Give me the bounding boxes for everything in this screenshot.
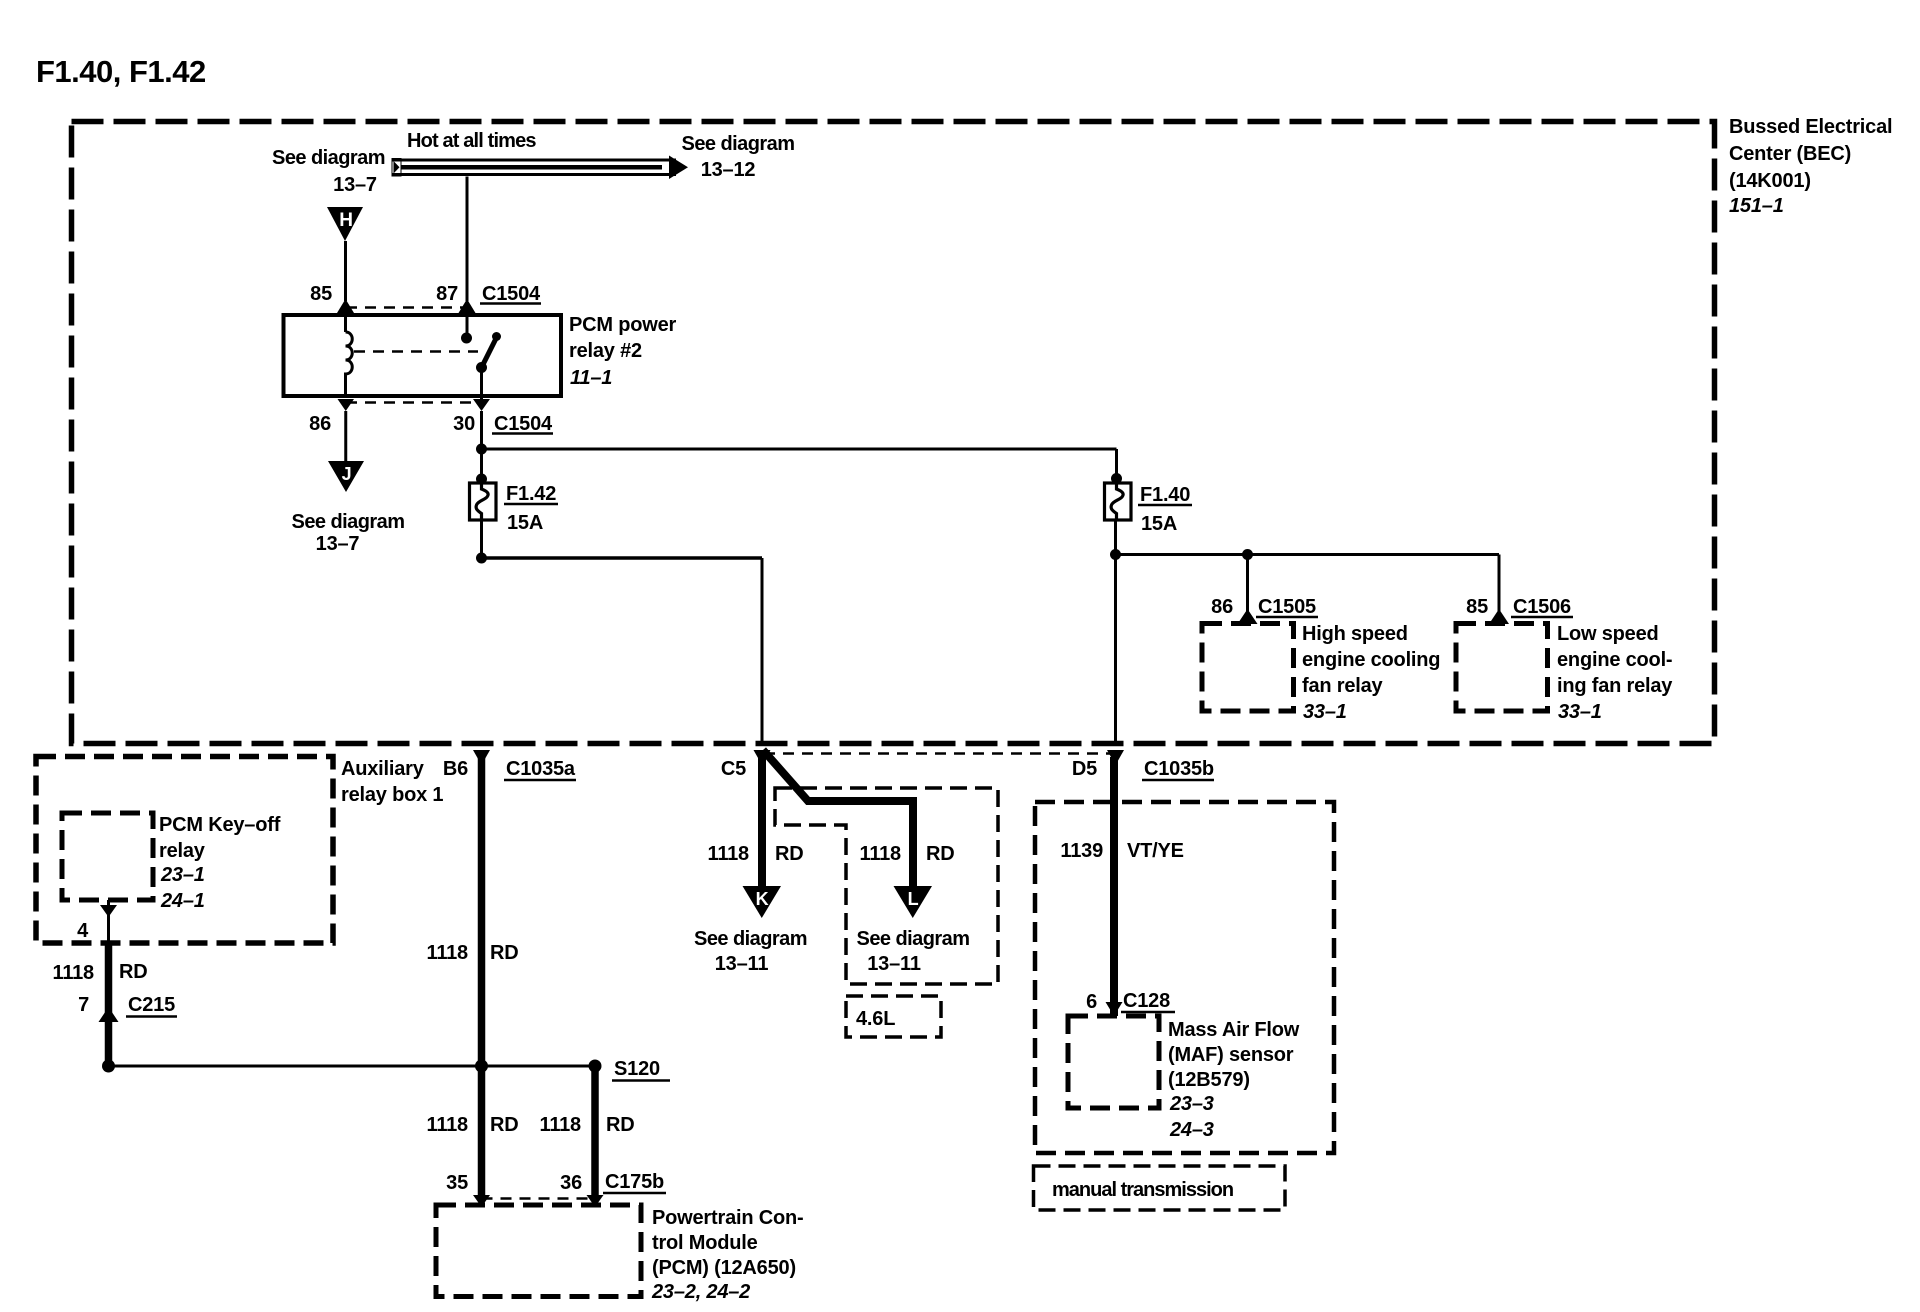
connector C215 label xyxy=(126,994,177,1017)
wire B6 thick (1118 RD) xyxy=(478,757,486,1198)
power bus: Hot at all times xyxy=(392,130,688,179)
svg-text:87: 87 xyxy=(436,283,458,305)
pin 4 label xyxy=(77,920,89,942)
Bussed Electrical Center (BEC) dashed box xyxy=(72,122,1715,744)
pin 86 arrow xyxy=(338,399,355,411)
see diagram 13-11 (L) xyxy=(857,928,970,975)
pin 7 label xyxy=(78,994,89,1016)
svg-text:See diagram: See diagram xyxy=(272,147,385,169)
connector C1035a label xyxy=(504,758,576,780)
see diagram 13-12 xyxy=(682,133,795,181)
low speed engine cooling fan relay box xyxy=(1456,624,1548,712)
relay pin 87 terminal xyxy=(461,333,472,344)
svg-text:86: 86 xyxy=(1211,596,1233,618)
svg-text:30: 30 xyxy=(453,413,475,435)
svg-text:RD: RD xyxy=(119,961,148,983)
splice S120 horizontal wire xyxy=(102,1060,602,1073)
svg-text:23–2, 24–2: 23–2, 24–2 xyxy=(651,1281,750,1303)
svg-text:See diagram: See diagram xyxy=(694,928,807,950)
svg-text:Bussed Electrical: Bussed Electrical xyxy=(1729,116,1892,138)
svg-text:RD: RD xyxy=(490,1114,519,1136)
svg-text:(12B579): (12B579) xyxy=(1168,1069,1250,1091)
BEC (14K001) label xyxy=(1729,116,1892,217)
svg-text:D5: D5 xyxy=(1072,758,1097,780)
connector C1505 label xyxy=(1256,596,1318,618)
wire label 1139 VT/YE xyxy=(1060,840,1183,862)
svg-text:C128: C128 xyxy=(1123,990,1170,1012)
svg-text:Center (BEC): Center (BEC) xyxy=(1729,143,1851,165)
svg-text:Auxiliary: Auxiliary xyxy=(341,758,425,780)
pin D5 label xyxy=(1072,758,1097,780)
node B6 (C1035a) arrow xyxy=(473,750,490,765)
connector C1035b label xyxy=(1142,758,1214,780)
svg-text:B6: B6 xyxy=(443,758,468,780)
svg-text:Hot at all times: Hot at all times xyxy=(407,130,536,152)
svg-text:151–1: 151–1 xyxy=(1729,195,1784,217)
node H arrow xyxy=(327,207,363,241)
wire below F1.42 xyxy=(476,520,487,564)
svg-text:7: 7 xyxy=(78,994,89,1016)
node J arrow xyxy=(328,461,364,492)
svg-text:C175b: C175b xyxy=(605,1171,664,1193)
Powertrain Control Module (PCM) box xyxy=(436,1205,641,1297)
4.6L box xyxy=(846,996,941,1037)
pin B6 label xyxy=(443,758,468,780)
wire to C5 xyxy=(482,558,763,744)
connector C1035b dashed line C5 to D5 xyxy=(764,752,1112,755)
svg-text:24–1: 24–1 xyxy=(160,890,205,912)
node L arrow xyxy=(894,886,933,918)
svg-text:24–3: 24–3 xyxy=(1169,1119,1214,1141)
pin 4 wire and arrow xyxy=(100,900,117,944)
svg-text:VT/YE: VT/YE xyxy=(1127,840,1184,862)
svg-text:36: 36 xyxy=(560,1172,582,1194)
fuse F1.40 label xyxy=(1138,484,1192,535)
svg-text:RD: RD xyxy=(606,1114,635,1136)
svg-text:F1.40, F1.42: F1.40, F1.42 xyxy=(36,54,206,89)
connector C1504 top dashed line xyxy=(346,306,470,309)
pin 87 label xyxy=(436,283,458,305)
svg-text:S120: S120 xyxy=(614,1058,660,1080)
pin 35 arrow xyxy=(473,1195,490,1207)
svg-text:1118: 1118 xyxy=(540,1114,582,1136)
svg-text:C1504: C1504 xyxy=(482,283,541,305)
svg-text:RD: RD xyxy=(490,942,519,964)
pin 30 label xyxy=(453,413,475,435)
svg-text:13–7: 13–7 xyxy=(316,533,360,555)
svg-text:H: H xyxy=(339,210,353,231)
pin 85 label xyxy=(310,283,332,305)
wire pin 30 down xyxy=(476,411,487,484)
svg-text:RD: RD xyxy=(926,843,955,865)
fuse F1.40 xyxy=(1105,449,1132,520)
svg-text:C1035a: C1035a xyxy=(506,758,576,780)
wire pin 30 to fuse F1.40 (horizontal) xyxy=(482,448,1117,451)
wire C5 to K xyxy=(758,751,766,887)
svg-text:85: 85 xyxy=(310,283,332,305)
see diagram 13-7 (bottom) xyxy=(292,511,405,555)
svg-text:15A: 15A xyxy=(1141,513,1177,535)
high speed engine cooling fan relay box xyxy=(1202,624,1294,712)
svg-text:(PCM) (12A650): (PCM) (12A650) xyxy=(652,1257,796,1279)
connector C1504 bottom label xyxy=(492,413,553,435)
svg-text:23–3: 23–3 xyxy=(1169,1093,1214,1115)
svg-text:Mass Air Flow: Mass Air Flow xyxy=(1168,1019,1300,1041)
svg-text:C215: C215 xyxy=(128,994,175,1016)
wire label 1118 RD (B6 upper) xyxy=(427,942,519,964)
wire label 1118 RD (pin 35) xyxy=(427,1114,519,1136)
svg-text:C1504: C1504 xyxy=(494,413,553,435)
connector C1504 bottom dashed line xyxy=(346,401,482,404)
svg-text:K: K xyxy=(756,889,769,909)
svg-text:engine cool-: engine cool- xyxy=(1557,649,1672,671)
connector C175b dashed line xyxy=(482,1197,596,1200)
page title F1.40, F1.42 xyxy=(36,54,206,89)
relay label xyxy=(569,314,677,389)
4.6L region dashed outline xyxy=(775,788,998,984)
svg-text:85: 85 xyxy=(1466,596,1488,618)
svg-text:35: 35 xyxy=(446,1172,468,1194)
svg-text:1118: 1118 xyxy=(427,1114,469,1136)
wire to C1506 xyxy=(1489,555,1509,625)
svg-text:13–11: 13–11 xyxy=(867,953,921,975)
svg-text:See diagram: See diagram xyxy=(682,133,795,155)
svg-text:1118: 1118 xyxy=(53,962,95,984)
svg-text:PCM Key–off: PCM Key–off xyxy=(159,814,281,836)
wire label 1118 RD (pin 36) xyxy=(540,1114,635,1136)
svg-text:ing fan relay: ing fan relay xyxy=(1557,675,1673,697)
svg-text:C1506: C1506 xyxy=(1513,596,1571,618)
pin C5 label xyxy=(721,758,746,780)
pin 36 arrow xyxy=(587,1195,604,1207)
pin 86 label xyxy=(309,413,331,435)
svg-text:RD: RD xyxy=(775,843,804,865)
svg-text:1118: 1118 xyxy=(708,843,750,865)
wire S120 to PCM pin 36 xyxy=(591,1066,599,1198)
svg-text:Powertrain Con-: Powertrain Con- xyxy=(652,1207,803,1229)
wire label 1118 RD (L) xyxy=(860,843,955,865)
connector C128 label xyxy=(1121,990,1175,1012)
svg-text:relay: relay xyxy=(159,840,206,862)
wire to fan relays (horizontal) xyxy=(1116,549,1500,560)
svg-text:33–1: 33–1 xyxy=(1303,701,1347,723)
pin 86 label (C1505) xyxy=(1211,596,1233,618)
pin 85 label (C1506) xyxy=(1466,596,1488,618)
Mass Air Flow (MAF) sensor box xyxy=(1068,1016,1159,1108)
svg-text:C5: C5 xyxy=(721,758,746,780)
Auxiliary relay box 1 dashed box xyxy=(36,757,333,944)
svg-text:86: 86 xyxy=(309,413,331,435)
svg-text:See diagram: See diagram xyxy=(857,928,970,950)
PCM Key-off relay label xyxy=(159,814,281,912)
connector C1504 top label xyxy=(480,283,541,305)
node K arrow xyxy=(743,886,782,918)
svg-text:Low speed: Low speed xyxy=(1557,623,1659,645)
wire below F1.40 to D5 xyxy=(1110,520,1121,744)
pin 30 arrow xyxy=(473,399,490,411)
svg-text:1118: 1118 xyxy=(427,942,469,964)
svg-text:engine cooling: engine cooling xyxy=(1302,649,1440,671)
MAF harness outer dashed box xyxy=(1035,802,1334,1153)
fuse F1.42 label xyxy=(504,483,558,534)
low speed fan relay text xyxy=(1557,623,1673,723)
svg-text:11–1: 11–1 xyxy=(570,367,612,389)
svg-text:6: 6 xyxy=(1086,991,1097,1013)
MAF sensor label xyxy=(1168,1019,1300,1141)
svg-text:13–11: 13–11 xyxy=(715,953,769,975)
svg-text:13–7: 13–7 xyxy=(333,174,377,196)
pin 35 label xyxy=(446,1172,468,1194)
svg-text:High speed: High speed xyxy=(1302,623,1408,645)
svg-text:F1.40: F1.40 xyxy=(1140,484,1190,506)
connector C175b label xyxy=(603,1171,666,1193)
pin 6 label xyxy=(1086,991,1097,1013)
pin 6 arrow xyxy=(1106,1002,1123,1016)
svg-text:PCM power: PCM power xyxy=(569,314,677,336)
svg-text:13–12: 13–12 xyxy=(701,159,756,181)
fuse F1.42 xyxy=(470,474,497,521)
wire C5 to L xyxy=(763,750,913,887)
svg-text:C1035b: C1035b xyxy=(1144,758,1214,780)
PCM label xyxy=(651,1207,803,1303)
svg-text:L: L xyxy=(908,889,919,909)
svg-text:J: J xyxy=(342,464,352,484)
wire pin 86 to J xyxy=(344,411,347,461)
relay armature dashed link xyxy=(354,350,478,353)
svg-text:23–1: 23–1 xyxy=(160,864,205,886)
splice S120 label xyxy=(612,1058,670,1081)
svg-text:33–1: 33–1 xyxy=(1558,701,1602,723)
svg-text:C1505: C1505 xyxy=(1258,596,1316,618)
wire H to relay pin 85 xyxy=(337,241,354,332)
PCM Key-off relay box xyxy=(62,813,153,900)
svg-text:(14K001): (14K001) xyxy=(1729,170,1811,192)
svg-text:15A: 15A xyxy=(507,512,543,534)
connector C1506 label xyxy=(1511,596,1573,618)
wire 1118 RD to C215 xyxy=(99,944,119,1062)
wire label 1118 RD (C215) xyxy=(53,961,148,984)
pin 36 label xyxy=(560,1172,582,1194)
wire bus to relay pin 87 xyxy=(459,177,476,334)
high speed fan relay text xyxy=(1302,623,1440,723)
wire D5 thick (1139 VT/YE) xyxy=(1110,757,1118,1016)
wire label 1118 RD (K) xyxy=(708,843,804,865)
svg-text:1139: 1139 xyxy=(1060,840,1103,862)
relay switch blade xyxy=(476,332,501,399)
svg-text:(MAF) sensor: (MAF) sensor xyxy=(1168,1044,1294,1066)
svg-text:relay box 1: relay box 1 xyxy=(341,784,443,806)
svg-text:See diagram: See diagram xyxy=(292,511,405,533)
svg-text:fan relay: fan relay xyxy=(1302,675,1384,697)
svg-text:trol Module: trol Module xyxy=(652,1232,758,1254)
node D5 (C1035b) arrow xyxy=(1107,750,1124,765)
node C5 arrow xyxy=(754,750,771,765)
see diagram 13-7 (top) xyxy=(272,147,385,196)
wire to C1505 xyxy=(1238,555,1258,625)
svg-text:manual transmission: manual transmission xyxy=(1052,1179,1233,1201)
relay PCM power relay #2 box xyxy=(284,315,562,396)
svg-text:4: 4 xyxy=(77,920,89,942)
svg-text:F1.42: F1.42 xyxy=(506,483,556,505)
svg-text:4.6L: 4.6L xyxy=(856,1008,895,1030)
see diagram 13-11 (K) xyxy=(694,928,807,975)
Auxiliary relay box 1 label xyxy=(341,758,443,806)
relay coil xyxy=(346,332,353,396)
manual transmission box xyxy=(1034,1166,1286,1210)
svg-text:1118: 1118 xyxy=(860,843,902,865)
svg-text:relay #2: relay #2 xyxy=(569,340,642,362)
